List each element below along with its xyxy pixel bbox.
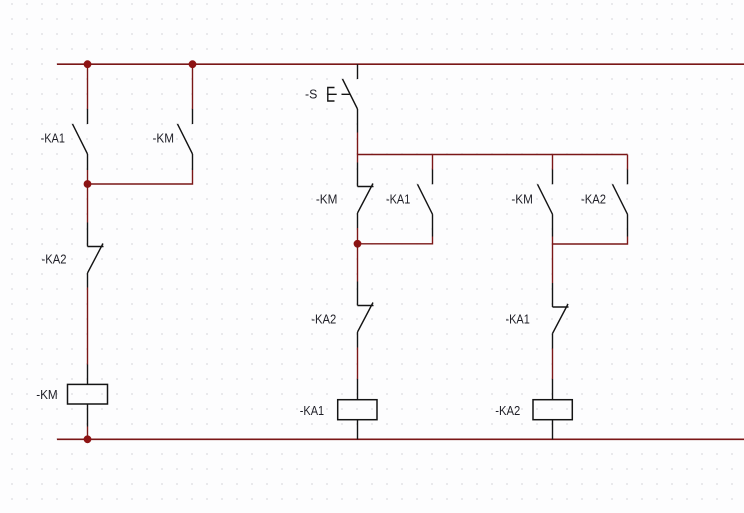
contact -KM (NO, parallel branch rung 1) — [178, 109, 193, 170]
wire: -KA1 contact down and across to rung 2 join — [358, 237, 433, 244]
bottom supply rail — [57, 438, 744, 440]
coil -KA1 — [338, 379, 377, 439]
wire: rung 2 join down to -KA2 NC — [357, 244, 359, 282]
wire: join down to -KA2 contact — [87, 184, 89, 223]
wire: feeder end down to -KA2 contact (rung 3) — [627, 155, 629, 170]
svg-text:-KM: -KM — [153, 132, 175, 146]
coil -KM — [68, 365, 108, 427]
feeder wire across rung 2 and rung 3 — [358, 154, 628, 156]
svg-text:-KM: -KM — [511, 193, 533, 207]
wire: rung 3 join down to -KA1 NC — [552, 244, 554, 283]
contact -KM (NO, rung 3) — [538, 170, 553, 237]
contact -KA2 (NO, rung 3) — [613, 170, 628, 237]
svg-text:-KA1: -KA1 — [41, 132, 65, 146]
svg-text:-KA1: -KA1 — [506, 313, 530, 327]
wire: top rail down to -KA1 contact — [87, 64, 89, 109]
junction dot: parallel join rung 1 — [84, 180, 92, 188]
wire: -KA2 NC down to -KA1 coil — [357, 348, 359, 380]
wire: feeder to -KA1 contact (rung 2) — [432, 155, 434, 170]
contact -KM (NC, rung 2) — [358, 163, 374, 229]
wire: feeder to -KM contact (rung 3) — [552, 155, 554, 170]
wire: -KM contact down to rung 3 join — [552, 237, 554, 245]
svg-text:-S: -S — [305, 87, 317, 101]
svg-text:-KA2: -KA2 — [311, 313, 336, 327]
wire: -KA1 NC down to -KA2 coil — [552, 349, 554, 380]
wire: top rail down to -KM branch contact — [192, 64, 194, 109]
svg-text:-KA1: -KA1 — [300, 404, 324, 418]
contact -KA2 (NC, rung 2) — [358, 282, 374, 348]
contact -KA2 (NC, rung 1) — [88, 223, 104, 288]
wire: feeder to -KM NC (rung 2) — [357, 155, 359, 163]
junction dot: top rail at -KM branch — [189, 60, 197, 68]
contact -KA1 (NO, rung 2) — [418, 170, 433, 237]
contact -KA1 (NC, rung 3) — [553, 283, 569, 349]
coil -KA2 — [533, 379, 572, 439]
svg-text:-KM: -KM — [36, 388, 58, 402]
wire: -S down to feeder node — [357, 133, 359, 155]
pushbutton -S (NO with manual actuator) — [328, 64, 358, 132]
svg-text:-KA2: -KA2 — [581, 193, 606, 207]
wire: -KM NC down to rung 2 join — [357, 228, 359, 244]
wire: -KA2 contact down and across to rung 3 join — [553, 237, 628, 245]
svg-text:-KM: -KM — [316, 193, 338, 207]
wire: -KA1 contact to parallel join — [87, 170, 89, 184]
wire: -KA2 contact down to -KM coil — [87, 288, 89, 365]
wire: -KM coil to bottom rail — [87, 427, 89, 440]
svg-text:-KA2: -KA2 — [42, 253, 67, 267]
junction dot: bottom rail at rung 1 — [84, 435, 92, 443]
junction dot: top rail at -KA1 — [84, 60, 92, 68]
svg-text:-KA2: -KA2 — [495, 404, 520, 418]
top supply rail — [57, 63, 744, 65]
contact -KA1 (NO, rung 1) — [73, 109, 88, 170]
junction dot: rung 2 join — [354, 240, 362, 248]
svg-text:-KA1: -KA1 — [386, 193, 410, 207]
wire: -KM branch down and across to join — [88, 170, 193, 184]
